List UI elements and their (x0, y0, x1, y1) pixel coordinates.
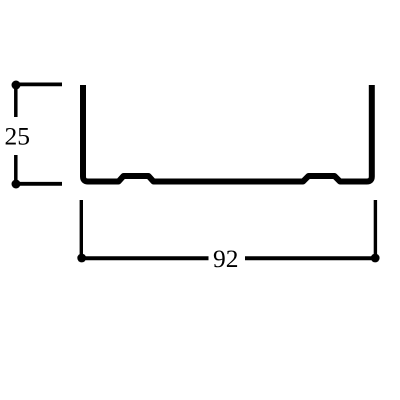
svg-text:92: 92 (213, 244, 239, 273)
svg-text:25: 25 (4, 122, 30, 151)
